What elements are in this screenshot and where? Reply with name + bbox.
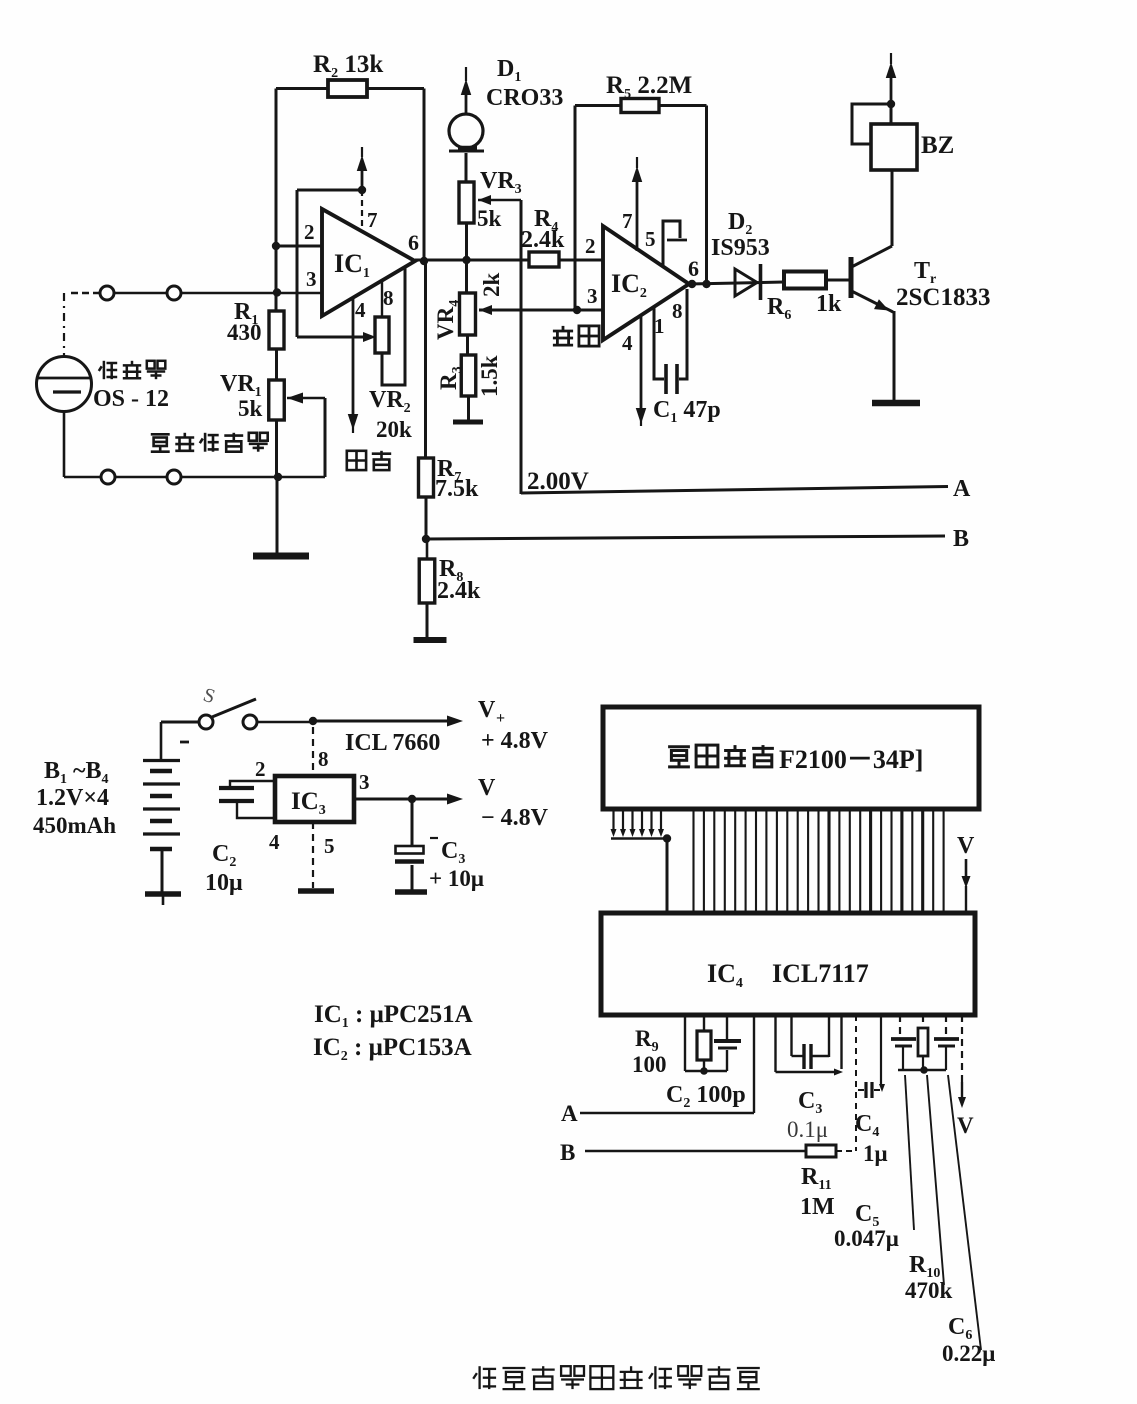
svg-text:0.1μ: 0.1μ [787,1117,828,1142]
oscillator capacitor [714,1039,741,1043]
svg-text:7: 7 [622,209,633,233]
resistor R5 [621,99,659,113]
node pin7 junction [358,186,366,194]
svg-text:2: 2 [585,234,596,258]
connector circle top 1 [100,286,114,300]
node V- junction [408,795,416,803]
diode D2 cathode bar [759,264,763,300]
wire R5 left lead [575,104,621,107]
wire VR3 wiper vertical (A line) [520,200,523,494]
wire R8 to ground [426,603,429,637]
svg-text:1.5k: 1.5k [477,355,502,397]
svg-text:100: 100 [632,1052,667,1077]
wire to C3 [411,799,414,846]
auto-zero resistor R10 body [922,1015,924,1028]
svg-text:B: B [953,526,969,552]
wire R4 to IC2 pin2 [559,259,603,262]
ground under VR1 [253,553,309,560]
svg-text:1M: 1M [800,1194,835,1220]
V+ output arrow [447,716,463,727]
wire R2 right lead [367,87,424,90]
resistor R9 [697,1031,711,1060]
svg-text:ICL 7660: ICL 7660 [345,730,440,756]
wire IC4 pin to A [753,1015,755,1113]
LED D1 cathode bar [449,150,484,153]
V+ arrow above IC1 [361,168,364,190]
IC1 pin7 dashed stub [361,190,363,232]
capacitor C1 pin1 lead [654,306,664,379]
wire collector up [891,170,894,246]
wire common bus [611,837,667,840]
svg-text:A: A [561,1101,578,1126]
IC2 pin5 hook stub [663,221,680,267]
buzzer side loop wire [852,104,891,144]
svg-text:IC2 : μPC153A: IC2 : μPC153A [313,1034,472,1064]
svg-text:2: 2 [304,220,315,244]
integrator capacitor left [891,1037,916,1041]
VR4 wiper arrow [479,305,492,315]
wire R6 to base [826,279,849,282]
wire capacitor group bottom [898,1069,946,1071]
ground under R3 [453,420,483,425]
integrator capacitor C5 pair leads [899,1015,901,1037]
svg-text:2.4k: 2.4k [521,227,565,253]
wire battery to switch [161,721,199,724]
svg-text:7: 7 [367,208,378,232]
node IC1 output junction [420,257,428,265]
node pin2 junction [272,242,280,250]
capacitor C4 dashed lead [855,1015,857,1151]
svg-text:IC1 : μPC251A: IC1 : μPC251A [314,1001,473,1031]
wire BZ top [890,104,893,124]
svg-text:1k: 1k [816,291,842,317]
wire B to R11 [585,1150,806,1152]
wire R9 bottom [703,1060,705,1071]
potentiometer VR3 [459,182,474,223]
wire sensor top to pin3 [71,292,100,294]
svg-text:6: 6 [408,230,419,255]
svg-text:2k: 2k [479,273,504,298]
oscillator capacitor lead [726,1015,728,1039]
IC3 pin8 dashed lead [312,727,314,776]
wire node B to label B [426,536,945,539]
node B junction [422,535,430,543]
resistor R6 [784,272,826,289]
LED D1 body [449,114,483,148]
capacitor C2 [219,786,254,790]
wire D2 to R6 [762,282,784,283]
svg-text:ICL7117: ICL7117 [772,959,869,988]
wire battery bottom to ground [161,849,164,892]
connector circle top 2 [167,286,181,300]
wire to V- arrow [412,798,447,801]
node R9 junction [700,1067,708,1075]
resistor R11 [806,1145,836,1157]
oscillator capacitor bottom lead [726,1050,728,1071]
caption portable oxygen-deficiency monitor circuit [473,1366,496,1389]
V+ arrow above IC2 pin7 [636,178,639,251]
wire R3 to ground [467,396,470,420]
capacitor C2 bottom lead [237,803,275,818]
svg-text:OS - 12: OS - 12 [93,386,169,412]
svg-text:20k: 20k [376,417,412,442]
wire sensor bottom rail [63,412,66,477]
svg-text:0.22μ: 0.22μ [942,1341,995,1366]
potentiometer VR1 [269,380,285,420]
LCD common pins group [612,809,614,831]
LCD label [668,747,690,767]
wire with arrow under C3 [776,1071,837,1073]
wire IC1 pin 2 [276,245,322,248]
resistor R3 [461,355,476,396]
wire VR1 wiper down [324,398,327,477]
VR1 wiper arrow [287,393,303,404]
wire output node down to R7 [424,261,427,458]
switch S pole 1 [199,715,213,729]
resistor R4 [529,252,559,267]
resistor R2 [328,80,367,97]
wire R2 left lead [276,87,328,90]
svg-text:8: 8 [383,286,394,310]
op-amp IC1 triangle [322,209,415,316]
IC1 pin8 stub [381,281,383,317]
svg-text:5: 5 [645,227,656,251]
wire VR3 bottom to main [465,223,468,293]
svg-text:2.4k: 2.4k [437,578,481,604]
svg-text:BZ: BZ [921,132,954,159]
node IC2 output [688,280,696,288]
battery B1-B4 cells [143,759,180,762]
R9 group left wire [684,1015,686,1071]
sensor top lead dash-dot [63,293,65,357]
node pin3 junction [273,288,281,296]
wire R5 left vertical to pin3 [574,106,577,311]
wire switch to V+ node [257,721,313,724]
IC1 pin4 line with down arrow [352,298,355,417]
IC2 pin4 down arrow V- [640,314,643,410]
connector circle bottom 2 [167,470,181,484]
op-amp IC2 triangle [603,226,689,340]
svg-text:+ 4.8V: + 4.8V [481,728,549,754]
svg-text:4: 4 [355,298,366,322]
node R5 output junction [702,280,710,288]
svg-text:V: V [957,833,975,859]
wire VR1 bottom [275,420,278,477]
variable resistor label [151,434,170,451]
leader line to C5 label [905,1075,914,1230]
svg-text:7.5k: 7.5k [435,476,479,502]
potentiometer VR4 [460,293,476,335]
main wire IC1 out to R4 [415,259,529,262]
svg-text:+: + [496,710,505,727]
capacitor C2 top lead [230,781,275,786]
sensor OS-12 body [37,357,92,412]
svg-text:V: V [478,775,496,801]
wire A to IC4 [580,1112,754,1114]
connector circle bottom 1 [101,470,115,484]
svg-text:6: 6 [688,256,699,281]
svg-text:1.2V×4: 1.2V×4 [36,785,109,811]
switch S pole 2 [243,715,257,729]
wire bottom rail to ground [276,477,279,553]
battery polarity mark [180,741,189,744]
capacitor C3 label [430,837,438,839]
svg-text:V: V [957,1113,974,1138]
transistor Tr base bar [849,257,854,298]
zero-adjust label [347,451,366,470]
wire feedback left vertical [275,89,278,313]
svg-text:B: B [560,1140,575,1165]
switch S lever [212,699,256,717]
node main wire VR junction [462,256,470,264]
svg-text:10μ: 10μ [205,870,243,896]
alarm label [553,326,573,345]
wire C3 to ground [411,865,414,890]
diode D2 [735,269,757,296]
svg-text:1μ: 1μ [863,1141,888,1166]
svg-text:430: 430 [227,320,262,345]
ground under R8 [414,637,447,643]
resistor R1 [269,311,284,349]
resistor R8 [419,559,435,603]
V+ arrow above D1 [465,95,468,113]
wire common bus to IC4 [666,839,669,914]
VR2 wiper arrow [363,332,376,342]
potentiometer VR2 [375,317,389,353]
svg-text:4: 4 [622,331,633,355]
wire R9 group bottom [685,1070,727,1072]
V- output arrow [447,794,463,805]
wire R5 right vertical to output [705,106,708,285]
wire stub [840,1015,842,1069]
integrator capacitor right [945,1015,947,1037]
svg-text:+ 10μ: + 10μ [429,866,484,891]
transistor collector line [852,246,893,267]
V pin arrow [961,1082,963,1098]
svg-text:5: 5 [324,834,335,858]
svg-text:1: 1 [654,314,665,338]
svg-text:8: 8 [672,299,683,323]
capacitor C3 [396,846,424,854]
svg-text:8: 8 [318,747,329,771]
sensor label [99,361,117,379]
leader line to R10 label [927,1075,944,1285]
svg-text:3: 3 [359,770,370,794]
transistor emitter line with arrow [852,291,894,312]
svg-text:0.047μ: 0.047μ [834,1226,899,1251]
svg-text:3: 3 [587,284,598,308]
svg-text:IS953: IS953 [711,235,770,261]
svg-text:5k: 5k [238,396,263,421]
V pin dashed lead [961,1015,963,1082]
wire emitter down [893,311,896,401]
wire R5 right lead [659,104,707,107]
LCD display box F2100-34PI [603,707,979,809]
wire R1 to VR1 [275,349,278,380]
reference capacitor C3 [802,1044,805,1069]
wire IC3 pin3 output [354,798,412,801]
ground under C3 [395,889,427,895]
node bottom rail junction [274,473,282,481]
V+ arrow above buzzer [890,76,893,104]
svg-text:CRO33: CRO33 [486,85,563,111]
wire pin7 to left [297,189,362,192]
IC3 pin5 dashed lead to ground [312,822,314,888]
svg-text:V: V [478,697,496,723]
svg-text:450mAh: 450mAh [33,813,116,838]
wire left loop down [296,190,299,337]
wire IC2 output to D2 [689,282,784,284]
VR3 wiper arrow [478,195,491,205]
reference capacitor leads [790,1015,792,1056]
buzzer BZ box [871,124,917,170]
wire 2.00V to node A [521,487,948,494]
ground under IC3 [298,888,334,894]
V+ bus arrow [965,859,968,878]
wire VR4 wiper to IC2 pin3 [479,309,603,312]
ground under battery [145,891,181,897]
capacitor C4 [864,1082,867,1098]
wire to VR2 wiper [297,336,368,339]
svg-text:C2 100p: C2 100p [666,1082,746,1111]
resistor R9 lead [703,1015,705,1031]
wire R7 to node B [425,497,428,539]
svg-text:5k: 5k [477,206,502,231]
svg-text:3: 3 [306,267,317,291]
IC4 box ICL7117 [601,913,975,1015]
resistor R7 [419,458,434,497]
svg-text:B1 ~B4: B1 ~B4 [44,758,109,787]
IC3 box [275,776,354,822]
svg-text:F2100－34P]: F2100－34P] [779,745,923,774]
svg-text:A: A [953,476,971,502]
node V+ junction [309,717,317,725]
ground under emitter [872,400,920,407]
svg-text:R2 13k: R2 13k [313,51,383,81]
wire VR2 bottom loop [382,267,405,385]
capacitor C1 [664,364,668,394]
wire R11 dashed to C4 [836,1150,856,1152]
svg-text:C1 47p: C1 47p [653,397,721,426]
svg-text:2SC1833: 2SC1833 [896,284,990,311]
svg-text:− 4.8V: − 4.8V [481,805,549,831]
wire C3 group right [828,1015,830,1057]
node R5 feedback junction [573,306,581,314]
wire feedback right vertical [423,89,426,262]
node capacitor group junction [920,1066,928,1074]
svg-text:4: 4 [269,830,280,854]
svg-text:2: 2 [255,757,266,781]
node BZ junction [887,100,895,108]
wire C4 right with arrow [880,1015,882,1084]
capacitor C1 pin8 lead [679,289,687,379]
svg-text:470k: 470k [905,1278,953,1303]
wire C3 group left [774,1015,776,1072]
leader line to C6 label [948,1075,981,1350]
wire D1 to VR3 [465,153,468,182]
LCD to IC4 bus wires [692,809,694,913]
node common bus junction [663,834,671,842]
wire to V+ arrow [313,720,447,723]
wire VR4 to R3 [466,335,469,355]
